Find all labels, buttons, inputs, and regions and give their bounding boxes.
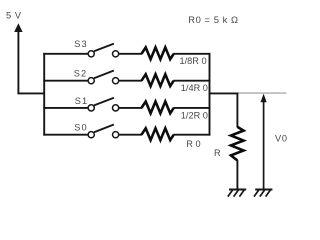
svg-text:S3: S3 bbox=[74, 39, 87, 49]
svg-text:S0: S0 bbox=[74, 123, 87, 133]
wire resistor 1/8R0 to right bus bbox=[173, 53, 210, 55]
svg-text:1/2R 0: 1/2R 0 bbox=[181, 110, 208, 120]
switch S3 throw contact bbox=[113, 51, 119, 57]
switch S2 pole contact bbox=[88, 78, 94, 84]
svg-text:1/8R 0: 1/8R 0 bbox=[180, 56, 207, 66]
wire bus to switch S1 bbox=[43, 107, 87, 109]
switch S3 lever bbox=[94, 44, 114, 52]
wire bus to switch S0 bbox=[43, 134, 87, 136]
wire switch S1 to resistor bbox=[119, 107, 142, 109]
switch S0 lever bbox=[94, 125, 114, 133]
svg-text:5 V: 5 V bbox=[6, 11, 22, 21]
ground under V0 arm bbox=[254, 190, 272, 197]
switch S0 throw contact bbox=[113, 132, 119, 138]
switch S1 throw contact bbox=[113, 105, 119, 111]
resistor 1/2R0 bbox=[142, 102, 174, 114]
wire bus to switch S2 bbox=[43, 80, 87, 82]
switch S3 pole contact bbox=[88, 51, 94, 57]
resistor 1/4R0 bbox=[142, 74, 174, 86]
wire switch S2 to resistor bbox=[119, 80, 142, 82]
svg-text:1/4R 0: 1/4R 0 bbox=[181, 83, 208, 93]
svg-text:S2: S2 bbox=[74, 68, 87, 78]
wire resistor R to ground bbox=[236, 160, 238, 190]
resistor 1/8R0 bbox=[142, 47, 174, 59]
power arrow up bbox=[14, 23, 22, 32]
wire output tap bbox=[209, 92, 239, 94]
switch S1 lever bbox=[94, 98, 114, 106]
wire resistor R0 to right bus bbox=[173, 134, 210, 136]
ground under R bbox=[228, 190, 246, 197]
wire down to resistor R bbox=[236, 93, 238, 128]
svg-text:V0: V0 bbox=[275, 134, 288, 144]
resistor R0 bbox=[142, 128, 174, 140]
svg-text:R: R bbox=[214, 148, 221, 158]
switch S0 pole contact bbox=[88, 132, 94, 138]
resistor R bbox=[231, 127, 244, 161]
V0 measurement arrow bbox=[261, 94, 267, 103]
svg-text:R 0: R 0 bbox=[186, 139, 200, 149]
wire supply vertical bbox=[17, 29, 19, 93]
wire resistor 1/2R0 to right bus bbox=[173, 107, 210, 109]
svg-text:S1: S1 bbox=[75, 96, 88, 106]
wire right bus vertical bbox=[209, 53, 211, 94]
svg-text:R0 = 5 k Ω: R0 = 5 k Ω bbox=[188, 14, 238, 25]
node output reference line bbox=[237, 92, 286, 94]
switch S1 pole contact bbox=[88, 105, 94, 111]
switch S2 throw contact bbox=[113, 78, 119, 84]
switch S2 lever bbox=[94, 71, 114, 79]
wire switch S0 to resistor bbox=[119, 134, 142, 136]
wire switch S3 to resistor bbox=[119, 53, 142, 55]
wire left bus vertical bbox=[43, 53, 45, 136]
wire resistor 1/4R0 to right bus bbox=[173, 80, 210, 82]
wire bus to switch S3 bbox=[43, 53, 87, 55]
wire supply to left bus bbox=[18, 92, 45, 94]
